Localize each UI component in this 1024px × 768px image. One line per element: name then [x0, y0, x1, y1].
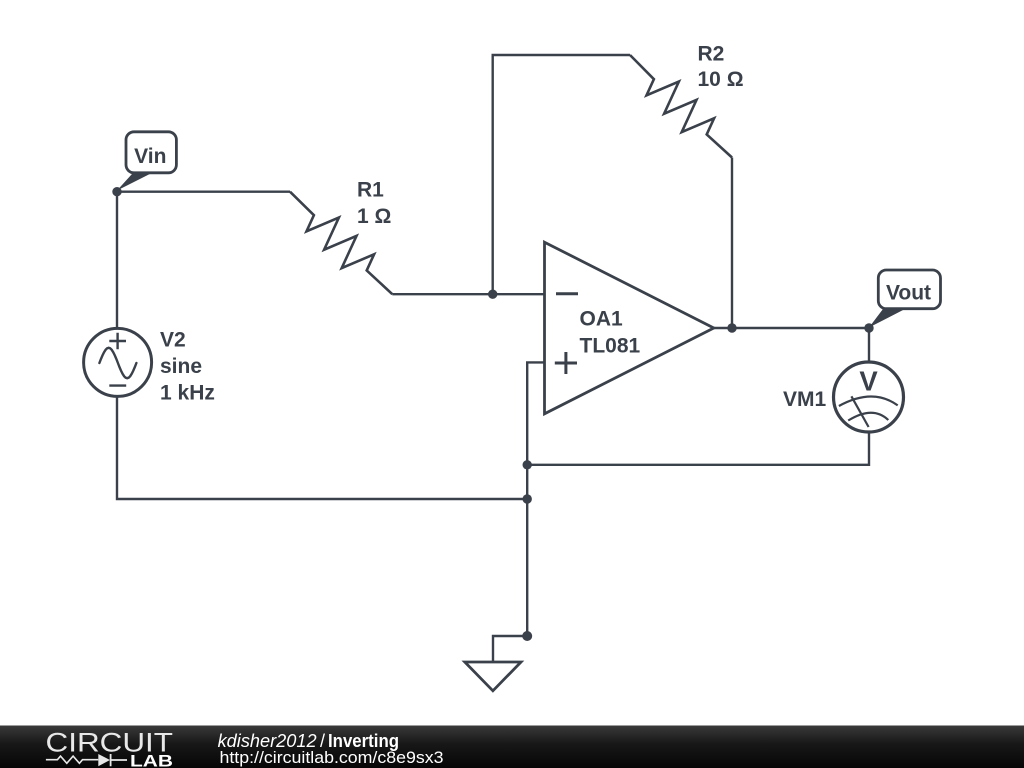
svg-text:V: V: [859, 365, 878, 396]
V2 minus sign: [109, 384, 126, 386]
voltage source V2: [84, 328, 152, 396]
wire R1 to op-amp inverting input: [392, 293, 544, 295]
VM1 inner arc: [848, 413, 888, 421]
V2 plus sign: [109, 333, 126, 350]
op-amp plus sign: [555, 352, 577, 374]
svg-text:1 kHz: 1 kHz: [160, 382, 215, 405]
node Vout flag: [869, 309, 905, 328]
node feedback-VM junction dot: [523, 460, 532, 469]
svg-text:10 Ω: 10 Ω: [698, 68, 744, 91]
VM1 outer arc: [839, 396, 898, 406]
svg-text:OA1: OA1: [580, 307, 624, 330]
CircuitLab logo resistor-diode glyph: [46, 756, 98, 763]
svg-text:VM1: VM1: [783, 388, 827, 411]
node V2 return junction dot: [523, 494, 532, 503]
voltmeter VM1: [834, 362, 904, 432]
node Vin flag: [117, 173, 152, 191]
V2 sine wave: [99, 348, 136, 378]
wire feedback up from node to R2: [493, 55, 630, 294]
resistor R1: [290, 192, 392, 295]
svg-text:LAB: LAB: [130, 751, 173, 768]
VM1 needle: [851, 396, 868, 427]
ground: [493, 636, 527, 662]
wire VM1 top: [868, 328, 870, 362]
svg-text:sine: sine: [160, 355, 202, 378]
svg-text:1 Ω: 1 Ω: [357, 205, 391, 228]
svg-text:TL081: TL081: [580, 334, 641, 357]
node inverting input junction dot: [488, 290, 497, 299]
svg-text:V2: V2: [160, 329, 186, 352]
svg-text:Vout: Vout: [886, 282, 931, 305]
op-amp minus sign: [556, 292, 578, 295]
svg-text:R1: R1: [357, 179, 384, 202]
op-amp OA1: [545, 242, 714, 414]
wire VM1 bottom to ground net: [527, 432, 869, 465]
wire V2 bottom return: [117, 396, 527, 499]
resistor R2: [630, 55, 732, 158]
wire R2 down to output node: [731, 158, 733, 329]
svg-text:R2: R2: [698, 43, 725, 66]
wire Vin down to V2: [116, 192, 118, 329]
svg-text:http://circuitlab.com/c8e9sx3: http://circuitlab.com/c8e9sx3: [220, 748, 444, 767]
wire op-amp output: [714, 327, 869, 329]
node Vout junction dot: [864, 323, 873, 332]
node Vin junction dot: [112, 187, 121, 196]
node ground junction dot: [522, 631, 532, 641]
node output junction dot: [727, 323, 736, 332]
svg-text:Vin: Vin: [134, 145, 166, 168]
wire Vin to R1: [117, 190, 290, 192]
wire noninverting input down: [527, 362, 544, 636]
